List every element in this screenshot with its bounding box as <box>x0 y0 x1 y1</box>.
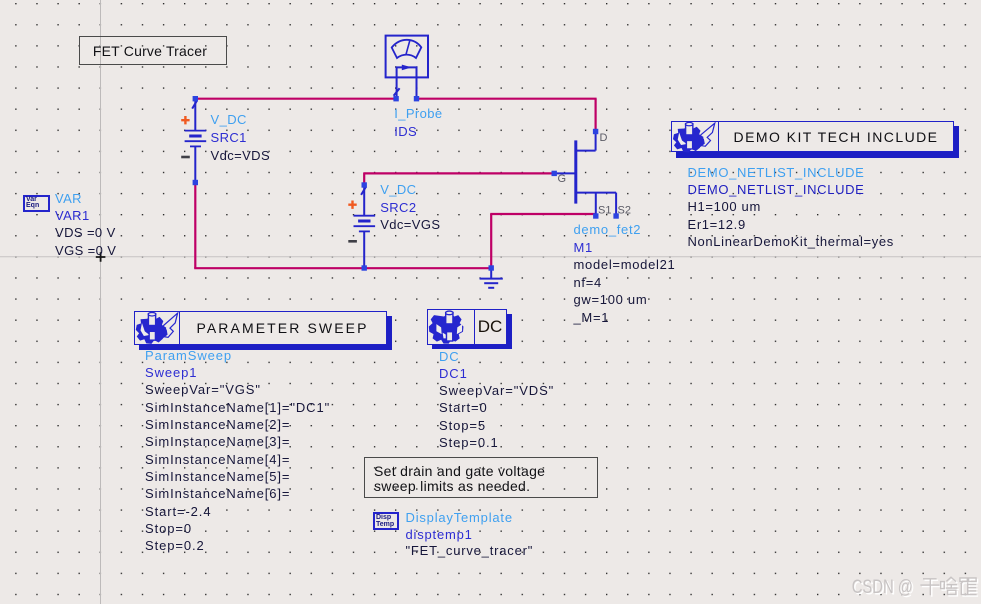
svg-text:CSDN @: CSDN @ <box>852 576 913 597</box>
